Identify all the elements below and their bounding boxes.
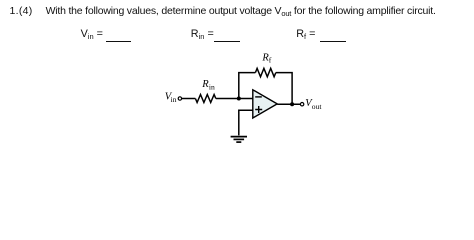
svg-text:in: in	[209, 83, 215, 92]
op-amp minus pin symbol	[255, 96, 262, 98]
wire from plus input to ground	[239, 110, 253, 135]
svg-text:f: f	[269, 55, 272, 64]
blank for Rin	[214, 41, 240, 42]
blank for Rf	[320, 41, 347, 42]
wire from Vin terminal to resistor Rin	[182, 98, 196, 100]
node junction at inverting input	[237, 97, 241, 101]
label Rf =	[296, 29, 315, 40]
node Vout terminal	[300, 103, 303, 106]
ground	[231, 137, 247, 143]
blank for Vin	[106, 41, 131, 42]
label Vin =	[81, 29, 103, 40]
wire from Rf to output node	[276, 73, 292, 105]
svg-text:out: out	[312, 102, 323, 111]
op-amp U1	[253, 90, 277, 118]
problem sentence	[46, 6, 436, 17]
wire op-amp output	[277, 103, 300, 105]
problem number	[10, 6, 33, 17]
label Rin =	[191, 29, 214, 40]
node Vin terminal	[178, 97, 181, 100]
resistor Rin	[195, 95, 215, 103]
node junction at output	[290, 102, 294, 106]
wire from resistor Rin to op-amp inverting input	[216, 98, 253, 100]
wire feedback left vertical and top run to Rf	[239, 73, 256, 99]
resistor Rf	[255, 68, 275, 76]
op-amp plus pin symbol	[255, 106, 262, 113]
svg-text:in: in	[171, 95, 177, 104]
